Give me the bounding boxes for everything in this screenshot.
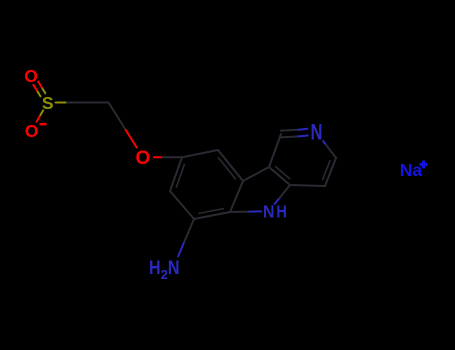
pyridine double bond C=N — [281, 129, 299, 132]
bond S-O(-) — [40, 110, 44, 116]
svg-text:O: O — [136, 148, 151, 169]
plus charge of Na+ — [420, 163, 428, 166]
bond B4-NH — [230, 211, 249, 213]
pyridine inner double line — [275, 166, 289, 178]
pyridine edge V3-V4 — [269, 167, 290, 185]
svg-text:O: O — [25, 121, 39, 141]
double bond S=O — [37, 91, 41, 97]
bond NH-V4 — [275, 198, 280, 204]
benzene edge B6-B1 — [170, 157, 182, 191]
benzene inner double line — [218, 158, 235, 179]
svg-text:N: N — [311, 120, 323, 145]
benzene edge B3-B4 — [230, 181, 243, 212]
chain bond S-CH2 — [56, 102, 68, 104]
svg-text:O: O — [24, 66, 38, 86]
benzene edge B4-B5 — [194, 212, 230, 219]
pyridine inner double line — [323, 161, 331, 180]
bond V3-B3 (five-membered ring) — [243, 167, 269, 181]
svg-text:N: N — [263, 202, 275, 222]
benzene inner double line — [199, 209, 224, 214]
charge minus on O — [40, 123, 47, 125]
bond O-C(aryl) — [154, 156, 163, 158]
svg-text:H: H — [149, 257, 161, 279]
svg-text:Na: Na — [400, 160, 423, 180]
benzene edge B1-B2 — [182, 150, 218, 157]
chain bond CH2-O — [109, 103, 126, 130]
bond B5-NH2 — [184, 219, 194, 243]
pyridine edge N-V6 — [323, 141, 326, 145]
pyridine edge V2-V3 — [269, 134, 281, 167]
benzene edge B2-B3 — [218, 150, 243, 181]
svg-text:S: S — [42, 93, 54, 113]
svg-text:N: N — [168, 257, 180, 279]
benzene edge B5-B6 — [170, 191, 194, 219]
pyridine edge V5-V6 — [325, 158, 336, 186]
svg-text:H: H — [276, 202, 287, 222]
pyridine edge V4-V5 — [290, 185, 325, 186]
benzene inner double line — [176, 164, 184, 187]
